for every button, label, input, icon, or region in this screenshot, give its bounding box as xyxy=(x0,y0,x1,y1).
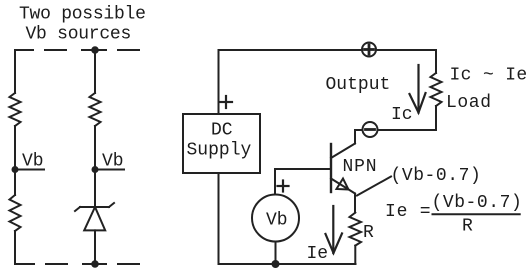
svg-text:DC: DC xyxy=(211,121,233,141)
wire: center branch top xyxy=(94,50,96,93)
wire: emitter down xyxy=(354,194,356,213)
wire xyxy=(14,170,16,196)
resistor (center branch) xyxy=(90,93,101,126)
svg-text:Vb: Vb xyxy=(22,152,44,172)
- terminal circle xyxy=(363,122,378,137)
node Vb (left) with tap line xyxy=(12,166,19,173)
wire: left branch top xyxy=(14,50,16,93)
svg-text:NPN: NPN xyxy=(343,157,378,177)
svg-text:Two possible: Two possible xyxy=(19,5,146,25)
svg-text:Ie: Ie xyxy=(307,244,329,264)
title "Two possible Vb sources" xyxy=(19,5,146,45)
wire: DC supply top to + terminal xyxy=(219,50,363,114)
svg-text:Supply: Supply xyxy=(187,141,252,161)
riser to Vb circle xyxy=(274,169,276,195)
plus label above DC box xyxy=(220,96,232,108)
emitter arrow xyxy=(337,179,349,190)
svg-text:Vb sources: Vb sources xyxy=(26,25,132,45)
base wire from Vb source xyxy=(275,168,331,170)
svg-text:Output: Output xyxy=(326,75,391,95)
top dashed rail (left section) xyxy=(15,49,139,51)
svg-text:Load: Load xyxy=(446,93,492,113)
wire: Vb circle bottom to rail xyxy=(275,242,277,265)
wire xyxy=(14,126,16,170)
svg-text:(Vb-0.7): (Vb-0.7) xyxy=(391,166,482,186)
arrow Ic xyxy=(410,65,426,113)
svg-text:Vb: Vb xyxy=(102,152,124,172)
svg-text:Ic: Ic xyxy=(391,105,413,125)
svg-text:Vb: Vb xyxy=(266,211,288,231)
DC supply box U1 xyxy=(183,114,260,173)
wire: + terminal to load xyxy=(376,50,436,73)
wire: DC supply bottom / bottom rail xyxy=(219,173,356,264)
svg-text:R: R xyxy=(462,217,473,237)
wire xyxy=(94,230,96,264)
node: junction dot on top rail xyxy=(91,46,99,54)
svg-text:Ic ~ Ie: Ic ~ Ie xyxy=(450,66,528,86)
wire to bottom rail xyxy=(15,231,34,264)
+ terminal circle xyxy=(362,43,376,57)
node Vb (center) with tap line xyxy=(92,166,99,173)
svg-text:Ie =: Ie = xyxy=(385,202,431,222)
wire: load bottom to - terminal xyxy=(378,106,437,130)
wire: - terminal to collector xyxy=(355,130,363,144)
svg-text:(Vb-0.7): (Vb-0.7) xyxy=(432,193,523,213)
wire xyxy=(94,126,96,170)
svg-text:R: R xyxy=(363,223,374,243)
base bar xyxy=(330,144,332,192)
transistor Q1 NPN xyxy=(331,144,355,194)
resistor R xyxy=(350,213,362,246)
arrow Ie xyxy=(326,206,343,253)
node on bottom rail xyxy=(272,260,280,268)
wire: R to bottom rail xyxy=(354,246,356,264)
fraction bar xyxy=(433,213,520,215)
plus label above Vb circle xyxy=(278,181,289,192)
resistor (lower, left Vb divider) xyxy=(10,195,21,231)
wire xyxy=(94,170,96,208)
zener diode D1 xyxy=(75,203,114,230)
emitter lead xyxy=(331,179,355,194)
labels right side xyxy=(307,66,528,265)
bottom dashed rail (left section) xyxy=(46,263,139,265)
collector lead xyxy=(331,144,355,159)
resistor (upper, left Vb divider) xyxy=(10,93,21,126)
node: junction dot on bottom rail xyxy=(91,260,99,268)
resistor Load xyxy=(431,73,442,106)
leader line to (Vb-0.7) xyxy=(357,177,391,196)
Vb source circle xyxy=(252,195,299,242)
